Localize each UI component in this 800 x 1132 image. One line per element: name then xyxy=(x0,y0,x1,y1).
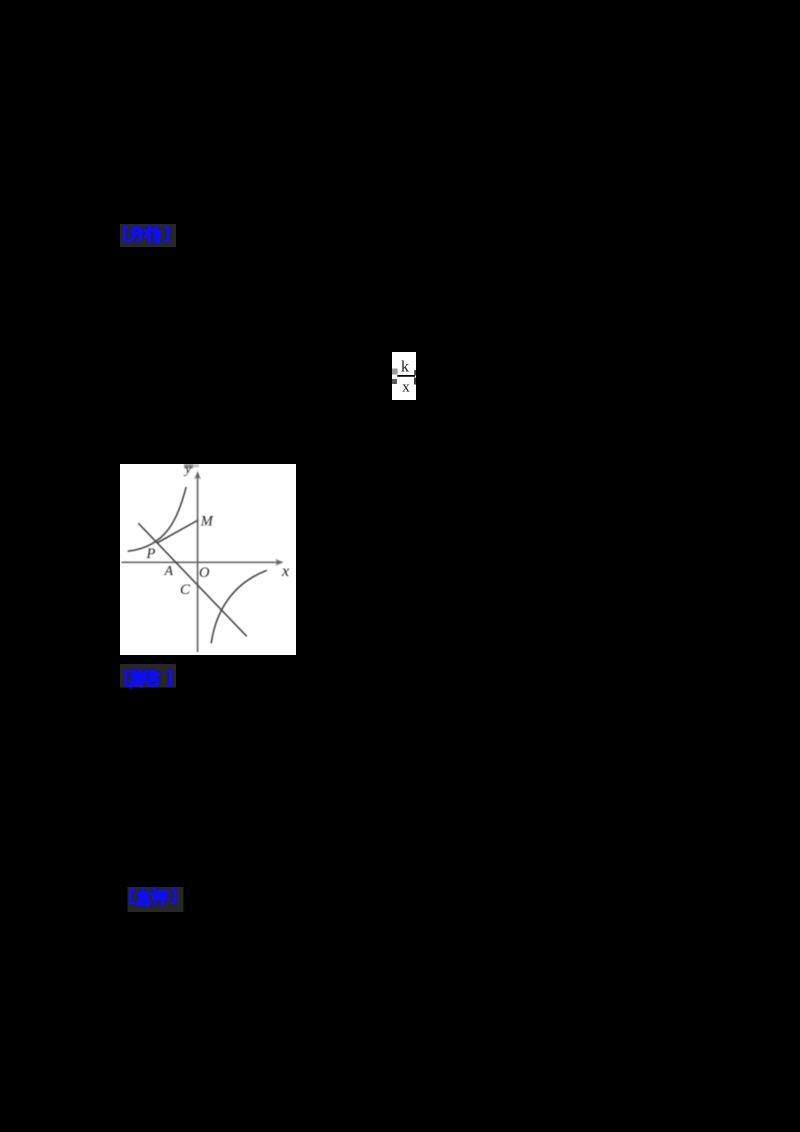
gray artifact left above bar xyxy=(392,369,398,375)
char 析 xyxy=(146,227,160,242)
segment P to M xyxy=(158,520,198,542)
char 分 xyxy=(131,228,142,241)
】 xyxy=(166,670,172,687)
gray artifact left below bar xyxy=(392,379,397,384)
white figure background xyxy=(120,464,296,655)
svg-text:x: x xyxy=(402,379,410,395)
char 点 xyxy=(137,889,149,905)
x-axis xyxy=(122,561,280,563)
【 xyxy=(124,670,130,687)
y-axis xyxy=(197,476,199,652)
section label 3 (blue 【点评】 on dark highlight) xyxy=(124,883,190,915)
【 xyxy=(129,889,135,905)
svg-text:y: y xyxy=(183,464,192,477)
char 评 xyxy=(153,889,168,905)
section label 2 (blue 【解答】 on dark highlight) xyxy=(117,660,181,691)
section label 1 (blue 【分析】 on dark highlight) xyxy=(117,221,181,251)
gray smudge top xyxy=(184,464,193,469)
】 xyxy=(164,226,170,242)
svg-text:x: x xyxy=(281,563,289,580)
svg-text:O: O xyxy=(199,565,210,581)
svg-text:C: C xyxy=(180,582,191,598)
main line through A and C xyxy=(139,524,247,636)
white equation background xyxy=(392,352,416,400)
【 xyxy=(123,226,129,242)
char 解 xyxy=(131,671,145,688)
char 答 xyxy=(146,671,159,686)
graph figure (white box with axes, line and hyperbola) xyxy=(120,464,296,655)
hyperbola lower-right branch xyxy=(211,571,266,643)
svg-text:A: A xyxy=(164,564,174,579)
svg-text:M: M xyxy=(200,513,214,529)
dark marks right edge xyxy=(414,370,416,376)
equation image: fraction k/x on white xyxy=(391,351,418,401)
】 xyxy=(171,889,177,905)
hyperbola upper-left branch xyxy=(128,488,186,551)
svg-text:P: P xyxy=(146,546,156,562)
svg-text:k: k xyxy=(401,359,409,376)
fraction bar xyxy=(397,375,415,377)
